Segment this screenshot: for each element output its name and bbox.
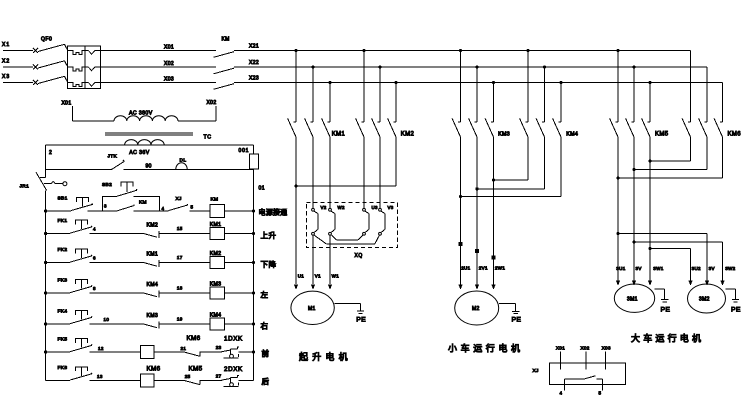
wire tie KM5p3-KM6p1 xyxy=(648,159,690,162)
wire tie KM1p1-KM2p3 xyxy=(294,184,396,187)
svg-text:X01: X01 xyxy=(556,346,565,351)
motor M2 xyxy=(455,291,499,325)
wire FK1 a xyxy=(46,233,71,235)
wire row1 a xyxy=(46,210,71,212)
ground PE 3M1 xyxy=(655,289,671,313)
svg-text:21: 21 xyxy=(181,346,187,351)
svg-text:15: 15 xyxy=(177,226,183,231)
terminal U3 xyxy=(363,205,378,211)
svg-text:X22: X22 xyxy=(249,60,259,66)
svg-text:01: 01 xyxy=(259,186,266,192)
right control rail xyxy=(254,169,266,380)
motor lead arrow xyxy=(688,281,692,286)
wire FK1 c xyxy=(159,226,210,233)
wire FK2 a xyxy=(46,262,71,264)
label 右 xyxy=(261,321,269,331)
wire FK5 a xyxy=(46,351,71,353)
thermal relay contact JR1 xyxy=(20,172,67,191)
svg-text:10: 10 xyxy=(104,317,110,322)
svg-text:V3: V3 xyxy=(388,205,394,210)
junction bus to KM5 pole 3 xyxy=(648,81,651,84)
relay XJ box xyxy=(533,363,626,385)
svg-text:SB2: SB2 xyxy=(102,182,112,188)
svg-text:KM6: KM6 xyxy=(147,366,161,373)
terminal V2 xyxy=(312,205,327,211)
label 2V1 xyxy=(479,266,488,271)
wire supply X3 xyxy=(2,74,33,83)
contactor KM5 pole2 xyxy=(626,67,634,281)
svg-text:3U2: 3U2 xyxy=(692,266,701,271)
pushbutton SB1 xyxy=(58,196,93,211)
label QF0 xyxy=(41,37,52,43)
motor 3M2 xyxy=(688,284,726,313)
svg-text:KM2: KM2 xyxy=(147,222,159,228)
svg-text:3: 3 xyxy=(104,204,107,209)
label gantry motors xyxy=(631,333,704,344)
bus line X22 xyxy=(101,60,708,67)
contactor KM1 pole2 xyxy=(305,67,313,209)
interlock contact KM5 xyxy=(184,366,203,385)
svg-text:18: 18 xyxy=(177,286,183,291)
motor lead arrow xyxy=(616,281,620,286)
svg-text:PE: PE xyxy=(731,307,741,314)
limit switch 2DXK xyxy=(222,366,243,387)
motor 3M1 xyxy=(614,284,654,312)
svg-text:XQ: XQ xyxy=(355,253,363,259)
contactor KM1 pole3 xyxy=(322,83,330,209)
wire FK6 a xyxy=(46,379,71,381)
interlock contact KM4 xyxy=(144,282,159,298)
interlock contact KM3 xyxy=(144,313,159,329)
svg-text:4: 4 xyxy=(560,391,563,396)
wire supply X2 xyxy=(2,59,33,68)
wire tie KM3p2-KM4p2 xyxy=(475,187,544,190)
wire tie KM3p1-KM4p3 xyxy=(459,195,561,198)
svg-text:DL: DL xyxy=(180,158,187,164)
svg-text:大车运行电机: 大车运行电机 xyxy=(631,333,704,344)
contactor KM6 pole2 xyxy=(699,67,707,170)
contact KM self-latch xyxy=(118,200,147,211)
svg-text:SB1: SB1 xyxy=(58,196,68,202)
svg-text:17: 17 xyxy=(177,255,183,260)
svg-text:3M1: 3M1 xyxy=(627,297,638,303)
wire branch to 3M2 V xyxy=(616,232,707,281)
svg-text:KM5: KM5 xyxy=(189,366,203,373)
ground PE M2 xyxy=(499,304,522,324)
wire marker xyxy=(492,256,496,260)
svg-text:23: 23 xyxy=(216,345,222,350)
wire FK2 b xyxy=(89,256,143,263)
svg-text:3W1: 3W1 xyxy=(653,266,663,271)
wire tie KM5p2-KM6p2 xyxy=(632,168,707,171)
coil KM xyxy=(210,196,225,217)
contactor KM2 pole2 xyxy=(372,67,380,209)
svg-text:FK3: FK3 xyxy=(58,278,68,284)
svg-text:3V: 3V xyxy=(636,266,642,271)
wire row1 e xyxy=(225,209,256,212)
wire FK3 a xyxy=(46,292,71,294)
contactor KM6 pole3 xyxy=(714,83,722,179)
svg-text:12: 12 xyxy=(98,346,104,351)
svg-text:KM6: KM6 xyxy=(187,335,201,342)
label 3V right xyxy=(709,266,715,271)
junction bus to KM2 pole 1 xyxy=(362,49,365,52)
svg-text:KM2: KM2 xyxy=(401,132,415,138)
svg-text:2V1: 2V1 xyxy=(479,266,488,271)
label KM3 xyxy=(498,131,510,137)
master controller contact FK3 xyxy=(58,278,93,293)
svg-text:KM4: KM4 xyxy=(147,282,159,288)
wire marker xyxy=(475,249,479,253)
wire V1 down xyxy=(311,235,321,289)
svg-text:AC 380V: AC 380V xyxy=(129,111,153,117)
node row FK2 rail xyxy=(44,261,47,264)
label 2U1 xyxy=(461,266,470,271)
contactor KM5 pole3 xyxy=(642,83,650,281)
pushbutton SB2 xyxy=(102,182,137,197)
wire FK6 e xyxy=(238,379,253,381)
wire FK3 c xyxy=(159,286,210,293)
wire branch to 3M2 W xyxy=(632,240,722,280)
interlock contact KM6 xyxy=(184,335,201,356)
bus line X21 xyxy=(101,44,691,51)
wire FK4 b xyxy=(89,317,143,324)
svg-text:XJ: XJ xyxy=(533,368,540,374)
svg-text:后: 后 xyxy=(262,376,270,386)
wire FK5 d xyxy=(200,345,222,352)
wire FK3 b xyxy=(89,286,143,293)
svg-text:2U1: 2U1 xyxy=(461,266,470,271)
junction bus to KM1 pole 1 xyxy=(294,49,297,52)
svg-text:5: 5 xyxy=(599,391,602,396)
contactor KM main contact pole 2 xyxy=(214,68,235,74)
junction bus to KM4 pole 1 xyxy=(526,49,529,52)
svg-text:U1: U1 xyxy=(298,274,305,279)
contactor KM3 pole3 xyxy=(485,83,493,285)
coil KM2 xyxy=(210,251,225,268)
svg-text:AC 36V: AC 36V xyxy=(129,150,149,156)
wire supply X1 xyxy=(2,42,33,51)
motor lead arrow xyxy=(720,281,724,286)
svg-text:KM5: KM5 xyxy=(655,132,669,138)
label 3U1 xyxy=(616,266,625,271)
label 上升 xyxy=(261,231,277,240)
contactor KM2 pole1 xyxy=(356,51,364,209)
coil KM1 xyxy=(210,222,225,239)
wire FK4 d xyxy=(225,322,255,325)
contactor KM main contact pole 3 xyxy=(214,84,235,90)
wire marker xyxy=(459,242,463,246)
svg-text:X01: X01 xyxy=(164,45,174,51)
motor lead arrow xyxy=(705,281,709,286)
svg-text:X03: X03 xyxy=(164,77,174,83)
motor M2 lead arrow xyxy=(458,285,462,290)
svg-text:X02: X02 xyxy=(207,100,217,106)
svg-text:5: 5 xyxy=(191,205,194,210)
label 3V left xyxy=(636,266,642,271)
svg-text:X03: X03 xyxy=(602,346,611,351)
wire FK5 b xyxy=(89,346,140,352)
contactor KM4 pole3 xyxy=(553,83,561,197)
breaker QF0 pole 2 xyxy=(33,61,68,70)
junction bus to KM4 pole 3 xyxy=(559,81,562,84)
node row1 left xyxy=(44,209,47,212)
label 3W1 xyxy=(653,266,663,271)
svg-text:25: 25 xyxy=(185,374,191,379)
svg-text:X21: X21 xyxy=(249,44,259,50)
svg-text:QF0: QF0 xyxy=(41,37,52,43)
svg-text:KM3: KM3 xyxy=(147,313,159,319)
contactor KM4 pole2 xyxy=(536,67,544,189)
label 左 xyxy=(261,290,269,300)
terminal U3 lower xyxy=(363,232,366,235)
terminal V3 lower xyxy=(379,232,382,235)
label backward xyxy=(262,376,270,386)
junction bus to KM2 pole 2 xyxy=(378,65,381,68)
master controller contact FK2 xyxy=(58,247,93,262)
relay XJ taps xyxy=(556,346,611,370)
coil KM5 xyxy=(141,346,155,359)
wire FK3 d xyxy=(225,291,255,294)
motor M2 lead arrow xyxy=(491,285,495,290)
svg-text:13: 13 xyxy=(97,374,103,379)
svg-text:3W2: 3W2 xyxy=(725,266,735,271)
junction bus to KM5 pole 1 xyxy=(616,49,619,52)
svg-text:上升: 上升 xyxy=(261,231,277,240)
svg-text:X02: X02 xyxy=(164,61,174,67)
junction bus to KM4 pole 2 xyxy=(543,65,546,68)
bell DL xyxy=(176,158,187,170)
contactor KM4 pole1 xyxy=(520,51,528,181)
label KM6 xyxy=(728,132,742,138)
contactor KM6 pole1 xyxy=(682,51,690,162)
junction bus to KM3 pole 2 xyxy=(475,65,478,68)
svg-text:XJ: XJ xyxy=(176,196,183,202)
label KM xyxy=(222,37,230,43)
wire FK6 b xyxy=(89,374,140,380)
node row FK3 rail xyxy=(44,291,47,294)
node X01 tap xyxy=(62,101,73,122)
svg-text:FK4: FK4 xyxy=(58,309,68,315)
wire tie KM3p3-KM4p1 xyxy=(492,178,528,181)
svg-text:1DXK: 1DXK xyxy=(224,336,243,343)
limit switch 1DXK xyxy=(222,336,243,359)
node X02 tap xyxy=(207,100,217,121)
svg-text:下降: 下降 xyxy=(261,259,277,269)
motor M1 xyxy=(291,291,334,324)
wire FK1 b xyxy=(89,227,143,234)
svg-text:M2: M2 xyxy=(472,306,480,312)
wire FK1 d xyxy=(225,232,255,235)
terminal V3 xyxy=(379,205,394,211)
wire row1 c xyxy=(134,206,169,211)
breaker QF0 pole 1 xyxy=(33,44,68,53)
master controller contact FK4 xyxy=(58,309,93,324)
svg-text:X1: X1 xyxy=(2,42,10,48)
transformer TC core xyxy=(105,133,193,135)
transformer TC primary winding xyxy=(73,111,217,122)
wire FK4 c xyxy=(159,317,210,324)
contactor KM1 pole1 xyxy=(288,51,296,187)
wire FK6 c xyxy=(154,374,190,380)
svg-text:V2: V2 xyxy=(321,205,327,210)
svg-text:V1: V1 xyxy=(315,274,321,279)
control circuit top wire xyxy=(46,145,254,156)
coil KM6 xyxy=(141,366,161,388)
label 3W2 xyxy=(725,266,735,271)
contactor KM3 pole1 xyxy=(452,51,460,285)
svg-text:M1: M1 xyxy=(308,306,316,312)
svg-text:4: 4 xyxy=(162,206,165,211)
svg-text:KM2: KM2 xyxy=(210,251,222,257)
label KM5 xyxy=(655,132,669,138)
svg-text:90: 90 xyxy=(146,164,152,170)
label forward xyxy=(262,348,270,358)
label 下降 xyxy=(261,259,277,269)
wire FK5 c xyxy=(154,346,186,352)
label KM1 xyxy=(332,132,346,138)
label KM2 xyxy=(401,132,415,138)
latch branch box xyxy=(103,196,160,211)
wire branch to 3M2 U xyxy=(648,247,690,281)
svg-text:X01: X01 xyxy=(62,101,72,107)
svg-text:JTK: JTK xyxy=(108,154,118,160)
master controller contact FK6 xyxy=(58,365,93,380)
wire FK5 e xyxy=(238,350,255,353)
svg-text:JR1: JR1 xyxy=(20,184,30,190)
wire U1 down xyxy=(294,186,304,290)
wire FK2 c xyxy=(159,255,210,262)
svg-text:3U1: 3U1 xyxy=(616,266,625,271)
svg-text:KM4: KM4 xyxy=(566,131,578,137)
svg-text:2W1: 2W1 xyxy=(495,266,505,271)
svg-text:2: 2 xyxy=(49,150,52,156)
svg-text:FK5: FK5 xyxy=(58,337,68,343)
interlock contact KM1 xyxy=(144,251,159,266)
node row FK1 rail xyxy=(44,232,47,235)
node row FK5 rail xyxy=(44,350,47,353)
bus line X23 xyxy=(101,76,723,83)
svg-text:X2: X2 xyxy=(2,59,10,65)
XQ internal star link B xyxy=(315,235,380,244)
svg-text:KM1: KM1 xyxy=(332,132,346,138)
svg-text:W1: W1 xyxy=(332,274,340,279)
svg-text:19: 19 xyxy=(177,317,183,322)
svg-text:电源接通: 电源接通 xyxy=(259,207,288,216)
wire row1 d xyxy=(190,210,210,212)
svg-text:KM3: KM3 xyxy=(498,131,510,137)
svg-text:8: 8 xyxy=(93,286,96,291)
svg-text:右: 右 xyxy=(261,321,269,331)
ground PE M1 xyxy=(334,304,366,324)
contact XJ xyxy=(169,196,194,211)
fuse 001 xyxy=(239,145,259,169)
ground PE 3M2 xyxy=(726,289,741,313)
wire FK4 a xyxy=(46,323,71,325)
svg-text:X3: X3 xyxy=(2,74,10,80)
terminal V2 lower xyxy=(312,232,315,235)
connector box XT xyxy=(68,46,101,89)
svg-text:KM: KM xyxy=(139,200,147,206)
XQ internal straight-through wires xyxy=(314,211,385,232)
contactor KM main contact pole 1 xyxy=(214,52,235,58)
svg-text:KM3: KM3 xyxy=(210,282,222,288)
left control rail xyxy=(45,145,47,380)
contactor KM2 pole3 xyxy=(388,83,396,187)
label hoist motor xyxy=(299,351,352,362)
svg-text:PE: PE xyxy=(661,307,671,314)
junction bus to KM1 pole 2 xyxy=(311,65,314,68)
svg-text:U3: U3 xyxy=(372,205,379,210)
switch JTK xyxy=(108,154,125,170)
wire FK2 d xyxy=(225,261,255,264)
wire tie KM5p1-KM6p3 xyxy=(616,176,722,179)
motor lead arrow xyxy=(632,281,636,286)
junction bus to KM5 pole 2 xyxy=(632,65,635,68)
label KM4 xyxy=(566,131,578,137)
svg-text:KM1: KM1 xyxy=(147,251,159,257)
svg-text:起升电机: 起升电机 xyxy=(299,351,352,362)
wire W1 down xyxy=(328,235,339,289)
svg-text:FK6: FK6 xyxy=(58,365,68,371)
wire row1 b xyxy=(87,204,117,212)
terminal W2 lower xyxy=(329,232,332,235)
XQ internal star link A xyxy=(332,235,363,240)
motor lead arrow xyxy=(648,281,652,286)
breaker QF0 pole 3 xyxy=(33,76,68,85)
svg-text:FK1: FK1 xyxy=(58,218,68,224)
coil KM3 xyxy=(210,282,225,299)
motor M2 lead arrow xyxy=(475,285,479,290)
label 3U2 xyxy=(692,266,701,271)
wire FK6 d xyxy=(200,373,222,380)
svg-text:KM6: KM6 xyxy=(728,132,742,138)
svg-text:前: 前 xyxy=(262,348,270,358)
junction bus to KM3 pole 3 xyxy=(492,81,495,84)
master controller contact FK5 xyxy=(58,337,93,352)
label trolley motor xyxy=(448,343,524,354)
junction bus to KM1 pole 3 xyxy=(328,81,331,84)
junction bus to KM3 pole 1 xyxy=(459,49,462,52)
svg-text:KM: KM xyxy=(222,37,230,43)
contactor KM3 pole2 xyxy=(469,67,477,285)
svg-text:左: 左 xyxy=(261,290,269,300)
svg-text:PE: PE xyxy=(512,317,522,324)
svg-text:X02: X02 xyxy=(581,346,590,351)
svg-text:2DXK: 2DXK xyxy=(224,366,243,373)
svg-text:PE: PE xyxy=(356,317,366,324)
relay XJ contact xyxy=(560,376,603,396)
svg-text:27: 27 xyxy=(216,373,222,378)
svg-text:KM1: KM1 xyxy=(210,222,222,228)
svg-text:小车运行电机: 小车运行电机 xyxy=(448,343,524,354)
node row FK4 rail xyxy=(44,322,47,325)
svg-text:3V: 3V xyxy=(709,266,715,271)
wire 90 / alarm line xyxy=(46,164,254,170)
junction bus to KM2 pole 3 xyxy=(394,81,397,84)
label TC xyxy=(204,135,212,141)
svg-text:3M2: 3M2 xyxy=(699,297,710,303)
svg-text:W2: W2 xyxy=(338,205,345,210)
rotor connector XQ xyxy=(306,203,397,260)
master controller contact FK1 xyxy=(58,218,93,233)
svg-text:X23: X23 xyxy=(249,76,259,82)
transformer TC secondary winding xyxy=(125,140,165,157)
terminal W2 xyxy=(329,205,345,211)
label 2W1 xyxy=(495,266,505,271)
svg-text:TC: TC xyxy=(204,135,212,141)
interlock contact KM2 xyxy=(144,222,159,238)
